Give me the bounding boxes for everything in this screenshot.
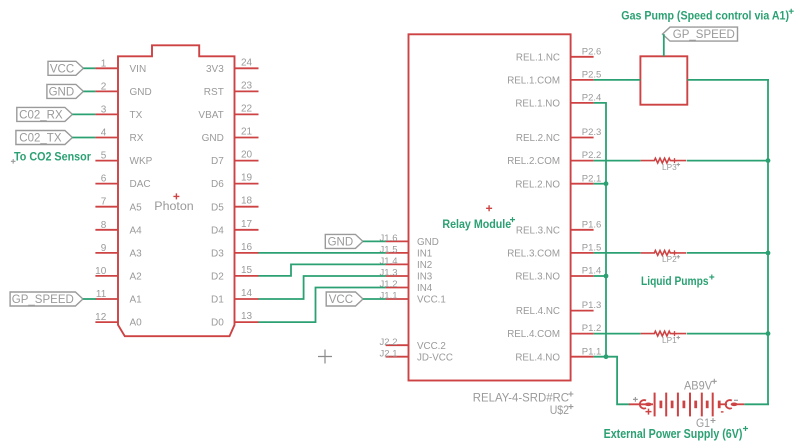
wire D3 (pin16) to relay J1.5 (259, 252, 386, 254)
svg-text:7: 7 (101, 197, 107, 208)
svg-text:D0: D0 (211, 318, 224, 329)
svg-text:10: 10 (95, 266, 107, 277)
LP1 label (662, 336, 680, 345)
U$2 pin P1.5 (REL.3.COM) (507, 243, 601, 260)
U1 pin 5 (WKP) (95, 151, 152, 168)
wire GND flag to relay J1.6 (363, 240, 386, 242)
U1 pin 18 (D5) (211, 196, 258, 214)
U1 pin 7 (A5) (95, 197, 142, 214)
svg-text:IN4: IN4 (417, 283, 433, 294)
battery minus mark (gray) (734, 399, 738, 401)
LP3 label (662, 163, 680, 172)
svg-text:GP_SPEED: GP_SPEED (673, 29, 735, 41)
U1 pin 9 (A3) (95, 243, 142, 260)
svg-text:D4: D4 (211, 225, 224, 236)
U1 pin 6 (DAC) (95, 174, 150, 191)
wire VCC flag to U1 pin 1 (83, 67, 95, 69)
svg-text:P2.1: P2.1 (582, 173, 602, 184)
U1 pin 17 (D4) (211, 219, 258, 237)
svg-text:4: 4 (101, 128, 107, 139)
wire relay P2.2 to resistor LP3 (594, 160, 641, 162)
IC U1 Photon body outline (118, 45, 235, 336)
wire relay P2.5 to gas pump left (594, 79, 641, 81)
svg-text:LP2: LP2 (662, 255, 677, 264)
svg-text:GND: GND (328, 236, 354, 248)
LP2 label (662, 255, 680, 264)
svg-text:VCC: VCC (50, 63, 74, 75)
gas pump square symbol (640, 56, 687, 104)
junction LP2 / right bus (766, 251, 771, 256)
annotation "External Power Supply (6V)" (604, 426, 748, 441)
svg-text:20: 20 (241, 150, 253, 161)
U1 pin 15 (D2) (211, 265, 258, 283)
svg-text:REL.1.COM: REL.1.COM (507, 76, 560, 87)
svg-text:P1.5: P1.5 (582, 243, 602, 254)
U$2 origin cross (486, 205, 492, 211)
svg-text:5: 5 (101, 151, 107, 162)
U$2 pin P1.6 (REL.3.NC) (516, 219, 601, 236)
U1 pin 11 (A1) (95, 289, 142, 306)
svg-text:U$2: U$2 (550, 403, 570, 417)
svg-text:J1.3: J1.3 (380, 268, 398, 279)
svg-text:REL.4.NC: REL.4.NC (516, 306, 560, 317)
svg-text:18: 18 (241, 196, 253, 207)
svg-text:6: 6 (101, 174, 107, 185)
net flag C02_RX (pin 3) (17, 107, 73, 121)
sheet origin crosshair (318, 350, 332, 364)
svg-text:LP1: LP1 (662, 336, 677, 345)
U1 pin 10 (A2) (95, 266, 142, 283)
U1 origin cross (173, 193, 179, 199)
svg-text:19: 19 (241, 173, 253, 184)
svg-text:TX: TX (130, 110, 143, 121)
wire relay P1.5 to resistor LP2 (594, 252, 641, 254)
U$2 pin P1.3 (REL.4.NC) (516, 300, 601, 317)
wire relay P2.1 stub to vertical bus (594, 183, 606, 185)
battery G1 (AB9V) symbol (629, 393, 744, 417)
U$2 name text "Relay Module" (442, 217, 515, 231)
svg-text:D6: D6 (211, 179, 224, 190)
U$2 pin P2.2 (REL.2.COM) (507, 150, 601, 167)
svg-text:J1.6: J1.6 (380, 233, 398, 244)
svg-text:J1.1: J1.1 (380, 291, 398, 302)
svg-text:1: 1 (101, 58, 107, 69)
U1 pin 1 (VIN) (95, 58, 146, 75)
svg-text:23: 23 (241, 80, 253, 91)
svg-text:REL.2.COM: REL.2.COM (507, 156, 560, 167)
wire relay P1.1 to battery positive (594, 357, 630, 405)
junction at P1.1 / vertical bus (604, 354, 609, 359)
svg-text:External Power Supply (6V): External Power Supply (6V) (604, 427, 743, 441)
svg-text:GND: GND (49, 86, 75, 98)
svg-text:Photon: Photon (154, 201, 193, 213)
U1 pin 2 (GND) (95, 81, 151, 98)
U1 value text "Photon" (154, 201, 193, 213)
svg-text:J1.5: J1.5 (380, 245, 398, 256)
svg-text:P1.6: P1.6 (582, 219, 602, 230)
svg-text:Gas Pump (Speed control via A1: Gas Pump (Speed control via A1) (621, 9, 789, 23)
wire gas pump right to right bus (687, 79, 769, 81)
svg-text:RX: RX (130, 133, 144, 144)
svg-text:P2.5: P2.5 (582, 70, 602, 81)
svg-text:REL.1.NC: REL.1.NC (516, 52, 560, 63)
svg-text:J1.4: J1.4 (380, 256, 398, 267)
svg-text:15: 15 (241, 265, 253, 276)
svg-text:A5: A5 (130, 202, 143, 213)
U1 pin 14 (D1) (211, 288, 258, 306)
wire resistor LP3 to right bus (687, 160, 769, 162)
svg-text:REL.4.NO: REL.4.NO (515, 352, 560, 363)
svg-text:11: 11 (96, 289, 107, 300)
svg-text:12: 12 (95, 312, 107, 323)
svg-text:8: 8 (101, 220, 107, 231)
svg-text:J2.1: J2.1 (380, 348, 398, 359)
wire D0 (pin13) to relay J1.2 (259, 288, 386, 323)
U$2 part text "RELAY-4-SRD#RC" (473, 391, 574, 405)
junction at P1.4 / vertical bus (604, 274, 609, 279)
svg-text:A1: A1 (130, 295, 143, 306)
svg-text:REL.1.NO: REL.1.NO (515, 99, 560, 110)
svg-text:REL.3.COM: REL.3.COM (507, 249, 560, 260)
U$2 pin J1.4 (IN2) (380, 256, 433, 271)
svg-text:P2.3: P2.3 (582, 127, 602, 138)
svg-text:IN2: IN2 (417, 260, 432, 271)
svg-text:A3: A3 (130, 249, 143, 260)
svg-text:GND: GND (202, 133, 224, 144)
U1 pin 3 (TX) (95, 104, 142, 121)
svg-text:VCC: VCC (329, 294, 353, 306)
svg-text:P1.3: P1.3 (582, 300, 602, 311)
svg-text:13: 13 (241, 311, 253, 322)
annotation "Gas Pump (Speed control via A1)" (621, 9, 793, 23)
annotation "To CO2 Sensor" (11, 150, 91, 164)
svg-text:3: 3 (101, 104, 107, 115)
junction LP1 / right bus (766, 331, 771, 336)
wire VCC flag to relay J1.1 (363, 298, 386, 300)
net flag GND (relay J1.6) (325, 234, 363, 248)
svg-text:21: 21 (241, 127, 253, 138)
svg-text:9: 9 (101, 243, 107, 254)
wire GP_SPEED flag to U1 pin 11 (83, 298, 96, 300)
svg-text:REL.3.NO: REL.3.NO (515, 272, 560, 283)
battery value text "AB9V" (684, 379, 717, 393)
relay module U$2 body outline (409, 34, 571, 380)
U$2 pin J1.6 (GND) (380, 233, 439, 248)
U$2 pin P2.4 (REL.1.NO) (515, 93, 601, 110)
svg-text:24: 24 (241, 57, 253, 68)
svg-text:C02_TX: C02_TX (19, 133, 62, 145)
battery minus mark (red) (721, 411, 724, 413)
svg-text:P1.2: P1.2 (582, 323, 602, 334)
right vertical bus wire (767, 80, 769, 404)
wire relay P1.2 to resistor LP1 (594, 333, 641, 335)
svg-text:WKP: WKP (130, 156, 153, 167)
svg-text:REL.2.NO: REL.2.NO (515, 179, 560, 190)
U$2 pin J1.2 (IN4) (380, 279, 433, 294)
svg-text:D5: D5 (211, 202, 224, 213)
wire D1 (pin14) to relay J1.3 (259, 276, 386, 299)
U1 pin 8 (A4) (95, 220, 142, 237)
U$2 pin J1.1 (VCC.1) (380, 291, 446, 306)
svg-text:P1.4: P1.4 (582, 266, 602, 277)
junction at P2.1 / vertical bus (604, 181, 609, 186)
svg-text:DAC: DAC (130, 179, 151, 190)
resistor LP3 (641, 158, 687, 163)
svg-text:A4: A4 (130, 225, 143, 236)
resistor LP2 (641, 250, 687, 255)
wire resistor LP1 to right bus (687, 333, 769, 335)
resistor LP1 (641, 331, 687, 336)
U$2 pin P1.4 (REL.3.NO) (515, 266, 601, 283)
svg-text:3V3: 3V3 (206, 64, 224, 75)
svg-text:GND: GND (130, 87, 152, 98)
U1 pin 16 (D3) (211, 242, 258, 260)
U$2 ref text "U$2" (550, 403, 574, 417)
svg-text:LP3: LP3 (662, 163, 677, 172)
svg-text:Relay Module: Relay Module (442, 217, 511, 231)
svg-text:JD-VCC: JD-VCC (417, 352, 453, 363)
net flag GND (pin 2) (47, 84, 84, 98)
svg-text:REL.2.NC: REL.2.NC (516, 133, 560, 144)
wire C02_TX flag to U1 pin 4 (72, 137, 95, 139)
net flag GP_SPEED (gas pump) (663, 27, 738, 41)
U$2 pin P2.1 (REL.2.NO) (515, 173, 601, 190)
svg-text:IN1: IN1 (417, 249, 432, 260)
svg-text:D7: D7 (211, 156, 224, 167)
svg-text:A2: A2 (130, 272, 143, 283)
wire relay P2.4 to vertical bus (594, 103, 606, 357)
wire battery negative to right bus (744, 403, 769, 405)
svg-text:D2: D2 (211, 272, 224, 283)
U1 pin 22 (VBAT) (198, 103, 258, 121)
junction LP3 / right bus (766, 158, 771, 163)
svg-text:GND: GND (417, 237, 439, 248)
svg-text:REL.4.COM: REL.4.COM (507, 329, 560, 340)
battery ref text "G1" (696, 416, 716, 430)
U$2 pin P2.5 (REL.1.COM) (507, 70, 601, 87)
svg-text:22: 22 (241, 103, 253, 114)
U$2 pin J1.3 (IN3) (380, 268, 433, 283)
svg-text:J1.2: J1.2 (380, 279, 398, 290)
U$2 pin P1.1 (REL.4.NO) (515, 346, 601, 363)
svg-text:REL.3.NC: REL.3.NC (516, 225, 560, 236)
svg-text:P2.4: P2.4 (582, 93, 602, 104)
svg-text:AB9V: AB9V (684, 379, 712, 393)
svg-text:C02_RX: C02_RX (19, 109, 63, 121)
svg-text:2: 2 (101, 81, 107, 92)
svg-text:17: 17 (241, 219, 253, 230)
net flag GP_SPEED (pin 11) (10, 292, 83, 306)
U1 pin 21 (GND) (202, 127, 259, 145)
wire D2 (pin15) to relay J1.4 (259, 264, 386, 276)
svg-text:Liquid Pumps: Liquid Pumps (641, 274, 709, 288)
svg-text:VIN: VIN (130, 64, 147, 75)
svg-text:D3: D3 (211, 249, 224, 260)
net flag C02_TX (pin 4) (16, 131, 73, 145)
svg-text:VCC.2: VCC.2 (417, 341, 446, 352)
U$2 pin J2.1 (JD-VCC) (380, 348, 453, 363)
U$2 pin P2.3 (REL.2.NC) (516, 127, 601, 144)
svg-text:D1: D1 (211, 295, 224, 306)
svg-text:VCC.1: VCC.1 (417, 295, 446, 306)
wire resistor LP2 to right bus (687, 252, 769, 254)
U1 pin 19 (D6) (211, 173, 258, 191)
net flag VCC (pin 1) (48, 61, 83, 75)
U$2 pin P2.6 (REL.1.NC) (516, 46, 601, 63)
battery plus mark (gray) (633, 397, 638, 402)
U1 pin 4 (RX) (95, 128, 143, 145)
svg-text:GP_SPEED: GP_SPEED (12, 294, 74, 306)
svg-text:IN3: IN3 (417, 272, 433, 283)
U$2 pin J1.5 (IN1) (380, 245, 433, 260)
U$2 pin P1.2 (REL.4.COM) (507, 323, 601, 340)
svg-text:14: 14 (241, 288, 253, 299)
net flag VCC (relay J1.1) (326, 292, 363, 306)
wire GP_SPEED flag to gas pump top (663, 34, 665, 56)
wire C02_RX flag to U1 pin 3 (72, 113, 95, 115)
svg-text:P1.1: P1.1 (582, 346, 602, 357)
wire relay P1.4 stub to vertical bus (594, 275, 606, 277)
battery plus mark (red) (646, 409, 652, 415)
U1 pin 13 (D0) (211, 311, 258, 329)
wire GND flag to U1 pin 2 (83, 90, 95, 92)
U1 pin 23 (RST) (204, 80, 259, 98)
svg-text:J2.2: J2.2 (380, 337, 398, 348)
svg-text:VBAT: VBAT (198, 110, 223, 121)
svg-text:16: 16 (241, 242, 253, 253)
svg-text:P2.6: P2.6 (582, 46, 602, 57)
U$2 pin J2.2 (VCC.2) (380, 337, 446, 352)
svg-text:A0: A0 (130, 318, 143, 329)
svg-text:To CO2 Sensor: To CO2 Sensor (14, 150, 91, 164)
annotation "Liquid Pumps" (641, 274, 714, 288)
U1 pin 20 (D7) (211, 150, 258, 168)
U1 pin 12 (A0) (95, 312, 142, 329)
svg-text:P2.2: P2.2 (582, 150, 602, 161)
svg-text:RST: RST (204, 87, 224, 98)
U1 pin 24 (3V3) (206, 57, 258, 75)
